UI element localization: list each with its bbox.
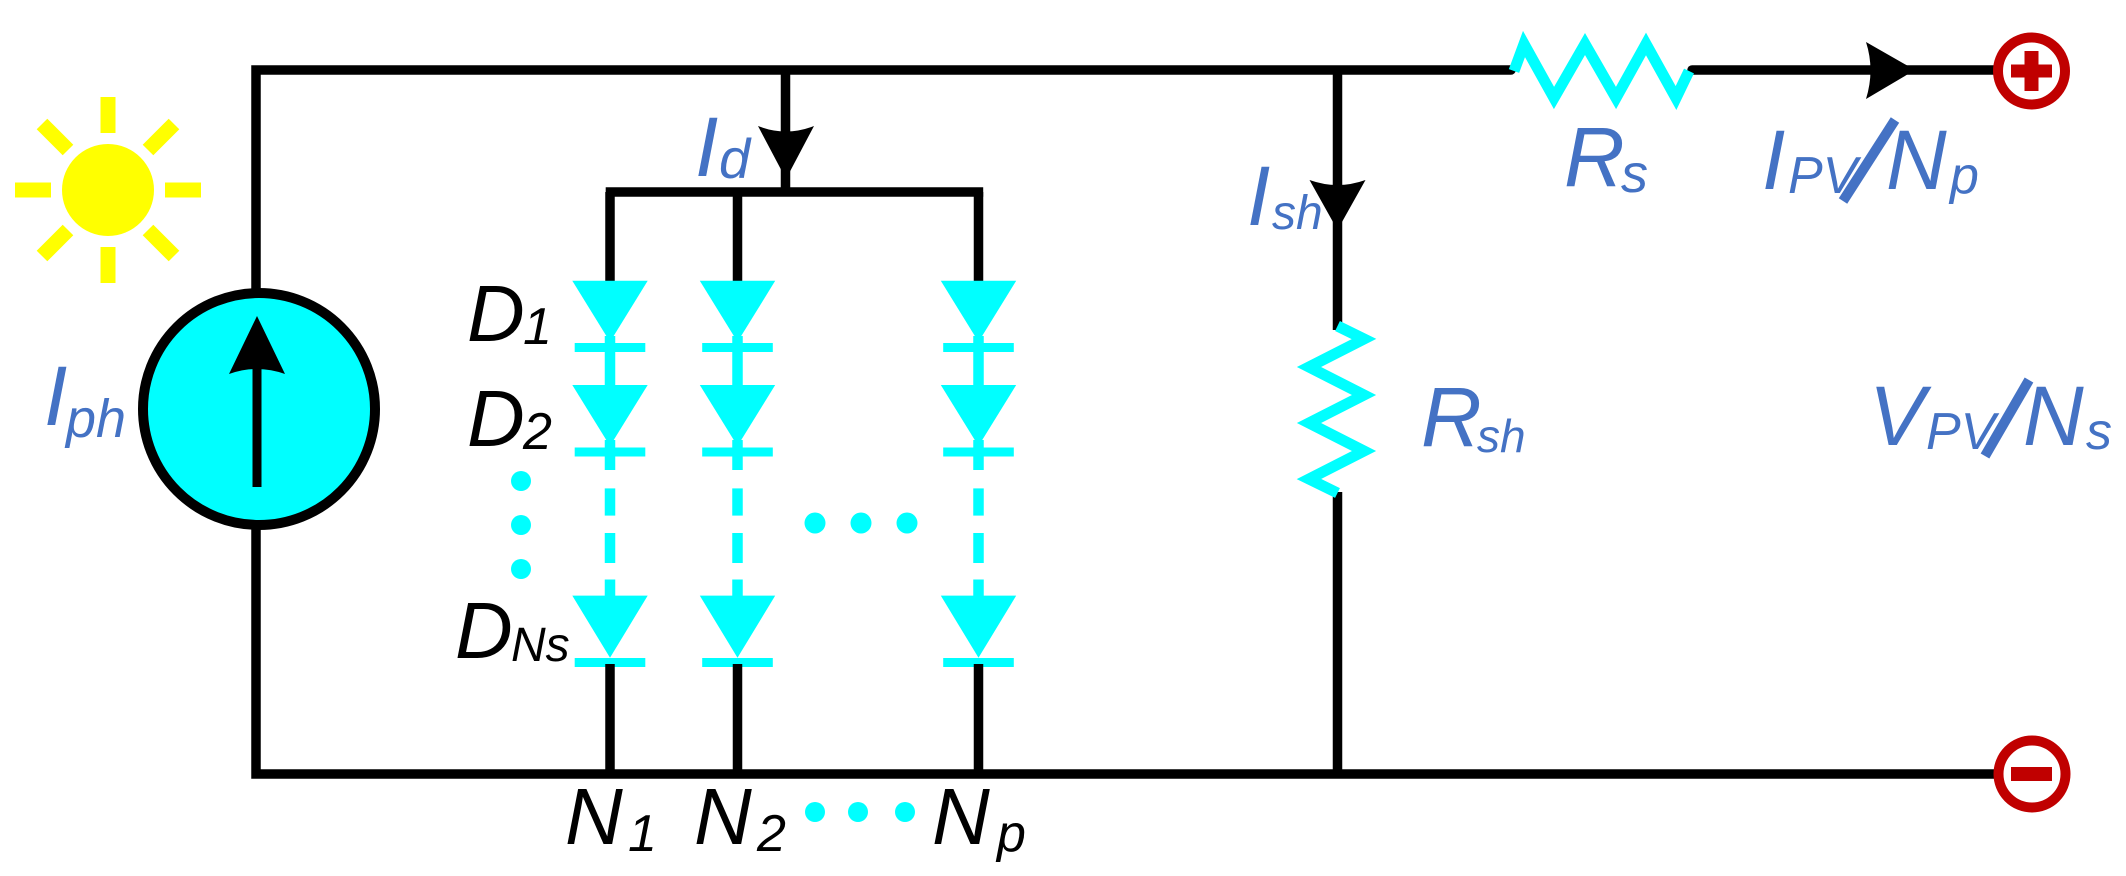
svg-text:N: N <box>2023 369 2084 463</box>
output current arrow IPV <box>1866 42 1915 99</box>
svg-text:I: I <box>695 100 718 194</box>
diode column Np <box>941 192 1016 778</box>
diode column N2 <box>700 192 775 778</box>
wire: left rail top + top rail to Rs <box>256 70 1511 292</box>
svg-text:s: s <box>2086 403 2112 461</box>
Ish arrow <box>1310 180 1366 230</box>
current source Iph circle <box>143 293 375 525</box>
diode D2 (Np) <box>941 385 1016 446</box>
svg-text:p: p <box>995 805 1026 863</box>
diode D2 (N1) <box>572 385 647 446</box>
svg-text:I: I <box>44 349 67 443</box>
current source Iph arrow <box>253 352 262 487</box>
svg-text:R: R <box>1564 110 1625 204</box>
dashed wire D2 to DNs (N2) <box>732 488 743 515</box>
diode DNs (N2) <box>700 596 775 658</box>
svg-text:2: 2 <box>522 403 552 461</box>
svg-text:D: D <box>467 374 525 463</box>
svg-text:1: 1 <box>523 298 552 356</box>
minus terminal <box>1999 741 2066 808</box>
svg-text:N: N <box>565 772 623 861</box>
svg-text:d: d <box>719 127 752 190</box>
wire: DNs to bottom rail, node Np <box>974 664 984 778</box>
resistor Rsh zigzag <box>1309 326 1364 493</box>
svg-text:sh: sh <box>1477 410 1526 462</box>
resistor Rs zigzag <box>1514 44 1689 98</box>
diode DNs (Np) <box>941 596 1016 658</box>
svg-text:sh: sh <box>1272 187 1323 240</box>
wire: left rail bottom + bottom rail <box>256 528 1996 774</box>
svg-text:p: p <box>1948 147 1979 205</box>
diode column N1 <box>572 192 647 778</box>
horizontal ellipsis dots between diode columns <box>805 513 918 534</box>
svg-text:ph: ph <box>64 389 126 449</box>
dashed wire D2 to DNs (Np) <box>973 488 984 515</box>
svg-text:s: s <box>1621 144 1648 204</box>
sun icon <box>15 97 201 283</box>
svg-text:N: N <box>1886 113 1947 207</box>
svg-text:D: D <box>467 269 525 358</box>
wire: bus to D1 (N2) <box>733 192 743 282</box>
dashed wire D2 to DNs (N1) <box>605 488 616 515</box>
svg-text:N: N <box>932 772 990 861</box>
wire: bus to D1 (N1) <box>605 192 615 282</box>
wire: top rail from Rs to + terminal <box>1692 65 1996 75</box>
wire: DNs to bottom rail, node N2 <box>733 664 743 778</box>
vertical ellipsis dots left of diodes <box>511 471 531 579</box>
diode D1 (Np) <box>941 281 1016 342</box>
svg-text:N: N <box>694 772 752 861</box>
diode D1 (N2) <box>700 281 775 342</box>
wire: Ish dropper from top rail to Rsh <box>1333 70 1343 330</box>
svg-text:I: I <box>1762 113 1785 207</box>
wire: Id dropper from top rail to diode bus <box>781 70 791 190</box>
svg-text:1: 1 <box>628 805 657 863</box>
diode D2 (N2) <box>700 385 775 446</box>
diode DNs (N1) <box>572 596 647 658</box>
wire: bus to D1 (Np) <box>974 192 984 282</box>
plus terminal <box>1998 38 2065 105</box>
wire: diode bus <box>606 187 984 197</box>
diode D1 (N1) <box>572 281 647 342</box>
svg-text:R: R <box>1421 370 1482 464</box>
wire: Rsh to bottom rail <box>1333 492 1343 774</box>
svg-text:I: I <box>1247 149 1270 243</box>
svg-text:2: 2 <box>756 805 786 863</box>
Id arrow <box>758 126 814 179</box>
horizontal ellipsis dots between N2 and Np <box>805 802 915 822</box>
svg-text:Ns: Ns <box>511 619 570 672</box>
svg-text:V: V <box>1869 369 1932 463</box>
wire: DNs to bottom rail, node N1 <box>605 664 615 778</box>
svg-text:D: D <box>455 586 513 675</box>
